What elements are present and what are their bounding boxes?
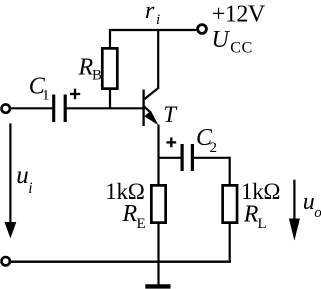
label C1 bbox=[29, 73, 50, 103]
input terminal top-left bbox=[2, 104, 10, 112]
ground bbox=[145, 284, 170, 288]
svg-text:B: B bbox=[92, 67, 102, 83]
wire RB top lead bbox=[109, 29, 111, 48]
plus sign of C1 bbox=[70, 89, 80, 100]
svg-text:T: T bbox=[163, 102, 178, 127]
capacitor C2 bbox=[182, 144, 192, 171]
svg-text:1: 1 bbox=[42, 88, 50, 104]
label RL bbox=[243, 202, 267, 233]
wire emitter down bbox=[157, 125, 159, 185]
svg-text:E: E bbox=[137, 216, 146, 232]
wire C2 to RL corner bbox=[192, 157, 229, 159]
wire collector up bbox=[157, 30, 159, 89]
svg-text:1kΩ: 1kΩ bbox=[241, 179, 280, 204]
label +12V bbox=[212, 2, 266, 28]
svg-text:u: u bbox=[16, 162, 29, 189]
wire RL bottom bbox=[229, 224, 231, 263]
label RB bbox=[78, 54, 103, 83]
label uo bbox=[303, 189, 321, 221]
capacitor C1 bbox=[54, 95, 65, 123]
svg-text:R: R bbox=[122, 201, 138, 227]
svg-text:o: o bbox=[314, 205, 321, 221]
label 1kOhm RE bbox=[105, 179, 144, 204]
svg-text:u: u bbox=[303, 189, 315, 215]
svg-text:R: R bbox=[243, 202, 259, 228]
transistor T bbox=[144, 88, 159, 126]
label UCC bbox=[212, 27, 253, 57]
resistor RL bbox=[223, 185, 237, 222]
label ui bbox=[16, 162, 32, 197]
wire emitter node to C2 bbox=[159, 157, 181, 159]
svg-text:2: 2 bbox=[210, 140, 218, 156]
svg-text:i: i bbox=[156, 12, 160, 28]
svg-text:r: r bbox=[145, 0, 155, 24]
wire RE bottom to ground bbox=[157, 224, 159, 285]
wire down to RL bbox=[229, 157, 231, 185]
wire base (C1 to transistor base) bbox=[65, 107, 143, 109]
label T bbox=[163, 102, 178, 127]
label ri bbox=[145, 0, 160, 28]
svg-text:CC: CC bbox=[230, 40, 253, 57]
top wire bbox=[109, 29, 197, 31]
label C2 bbox=[196, 125, 217, 156]
label 1kOhm RL bbox=[241, 179, 280, 204]
output terminal bottom-left bbox=[2, 257, 10, 265]
svg-text:U: U bbox=[212, 27, 231, 53]
label RE bbox=[122, 201, 146, 232]
arrow ui bbox=[5, 123, 17, 238]
resistor RE bbox=[151, 185, 165, 222]
resistor RB bbox=[102, 48, 117, 88]
arrow uo bbox=[289, 180, 300, 241]
bottom wire bbox=[11, 261, 231, 263]
power terminal +12V bbox=[198, 25, 207, 34]
svg-text:i: i bbox=[28, 180, 32, 197]
plus sign of C2 bbox=[167, 138, 177, 148]
wire RB bottom lead bbox=[109, 89, 111, 108]
wire input to C1 bbox=[11, 107, 54, 109]
svg-text:+12V: +12V bbox=[212, 2, 266, 28]
svg-text:L: L bbox=[258, 216, 267, 232]
